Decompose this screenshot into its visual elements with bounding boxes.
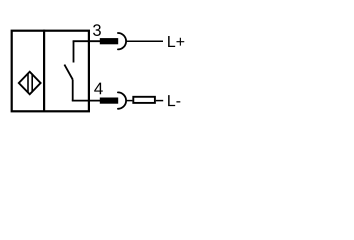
proximity sensor symbol diamond <box>19 72 41 95</box>
wire pin3 to L+ <box>126 40 163 42</box>
sensor body box <box>12 31 89 112</box>
wire pin3 inside box <box>73 40 101 42</box>
wire pin4 to load <box>126 100 132 102</box>
connector socket 3 (arc) <box>118 33 126 49</box>
load resistor <box>133 97 155 103</box>
switch arm (NO contact) <box>64 65 72 80</box>
pin 4 label <box>94 83 103 95</box>
wire load to L- <box>156 100 163 102</box>
diamond inner left line <box>27 74 29 93</box>
switch lower terminal <box>72 80 74 101</box>
sensor body divider <box>43 30 45 112</box>
connector pin 3 (male, filled) <box>100 38 118 44</box>
wire pin4 inside box <box>72 100 101 102</box>
switch upper terminal <box>73 41 75 62</box>
node L+ <box>168 36 184 47</box>
node L- <box>168 95 180 106</box>
connector socket 4 (arc) <box>118 92 126 108</box>
diamond inner right line <box>31 74 33 93</box>
connector pin 4 (male, filled) <box>100 98 118 104</box>
pin 3 label <box>93 24 101 36</box>
